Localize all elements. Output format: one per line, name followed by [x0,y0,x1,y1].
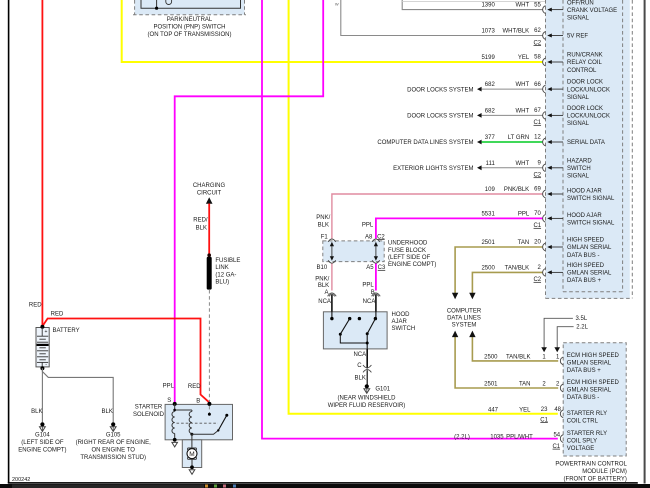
svg-text:DOOR LOCKS SYSTEM: DOOR LOCKS SYSTEM [407,114,473,120]
svg-text:2501: 2501 [481,240,495,246]
svg-text:CHARGING: CHARGING [193,183,226,189]
svg-text:682: 682 [485,82,496,88]
svg-text:WHT: WHT [516,3,530,9]
svg-text:SWITCH SIGNAL: SWITCH SIGNAL [567,220,615,226]
svg-text:(LEFT SIDE OF: (LEFT SIDE OF [21,440,64,446]
svg-text:YEL: YEL [518,55,530,61]
svg-text:(2.2L): (2.2L) [454,434,470,440]
svg-text:GMLAN SERIAL: GMLAN SERIAL [567,271,612,277]
svg-text:W: W [335,2,339,7]
svg-text:STARTER RLY: STARTER RLY [567,431,607,437]
svg-text:(LEFT SIDE OF: (LEFT SIDE OF [388,255,431,261]
svg-text:HIGH SPEED: HIGH SPEED [567,238,605,244]
svg-text:SWITCH SIGNAL: SWITCH SIGNAL [567,196,615,202]
svg-text:2500: 2500 [484,354,498,360]
svg-text:(FRONT OF BATTERY): (FRONT OF BATTERY) [564,476,627,482]
svg-text:BLK: BLK [31,409,42,415]
svg-text:WHT/BLK: WHT/BLK [503,29,530,35]
svg-text:PPL: PPL [362,222,374,228]
svg-text:BLK: BLK [318,222,329,228]
svg-text:S: S [167,398,171,404]
svg-text:PPL: PPL [163,383,175,389]
svg-text:(12 GA-: (12 GA- [215,272,236,278]
svg-text:58: 58 [534,55,541,61]
svg-text:48: 48 [554,407,561,413]
svg-text:A8: A8 [365,234,373,240]
svg-text:RED: RED [188,384,201,390]
svg-text:70: 70 [534,211,541,217]
svg-text:GMLAN SERIAL: GMLAN SERIAL [567,245,612,251]
svg-text:2.2L: 2.2L [576,324,588,330]
svg-text:TAN: TAN [518,240,530,246]
svg-text:HIGH SPEED: HIGH SPEED [567,263,605,269]
svg-text:STARTER RLY: STARTER RLY [567,411,607,417]
svg-text:PARK/NEUTRAL: PARK/NEUTRAL [167,17,213,23]
svg-text:PNK/BLK: PNK/BLK [504,187,529,193]
svg-text:G104: G104 [35,433,50,439]
svg-text:POWERTRAIN CONTROL: POWERTRAIN CONTROL [555,461,627,467]
svg-text:2501: 2501 [484,382,498,388]
svg-text:UNDERHOOD: UNDERHOOD [388,241,428,247]
svg-text:TAN: TAN [519,382,531,388]
svg-text:RED/: RED/ [193,218,208,224]
svg-text:MODULE (PCM): MODULE (PCM) [582,469,627,475]
svg-text:COMPUTER: COMPUTER [447,308,482,314]
svg-text:20: 20 [534,240,541,246]
svg-text:(RIGHT REAR OF ENGINE,: (RIGHT REAR OF ENGINE, [76,440,152,446]
svg-text:55: 55 [534,2,541,8]
svg-text:SYSTEM: SYSTEM [452,322,477,328]
svg-text:12: 12 [534,135,541,141]
svg-text:SIGNAL: SIGNAL [567,121,590,127]
svg-text:62: 62 [534,28,541,34]
svg-text:ECM HIGH SPEED: ECM HIGH SPEED [567,380,620,386]
svg-text:DOOR LOCK: DOOR LOCK [567,80,603,86]
svg-text:HOOD AJAR: HOOD AJAR [567,188,602,194]
svg-text:1073: 1073 [481,29,495,35]
svg-text:HOOD: HOOD [392,312,411,318]
svg-text:GMLAN SERIAL: GMLAN SERIAL [567,360,612,366]
svg-text:LOCK/UNLOCK: LOCK/UNLOCK [567,114,610,120]
svg-text:WHT: WHT [516,108,530,114]
svg-text:COIL SPLY: COIL SPLY [567,439,597,445]
svg-text:109: 109 [485,187,496,193]
svg-text:SWITCH: SWITCH [567,166,591,172]
svg-text:(NEAR WINDSHIELD: (NEAR WINDSHIELD [337,396,396,402]
svg-text:DATA BUS +: DATA BUS + [567,368,601,374]
svg-text:377: 377 [485,135,496,141]
svg-text:G105: G105 [106,433,121,439]
svg-text:COIL CTRL: COIL CTRL [567,419,599,425]
svg-text:YEL: YEL [519,407,531,413]
svg-text:POSITION (PNP) SWITCH: POSITION (PNP) SWITCH [154,24,226,30]
svg-text:ENGINE COMPT): ENGINE COMPT) [388,262,436,268]
svg-text:G101: G101 [375,386,390,392]
svg-text:M: M [189,451,194,458]
svg-text:FUSIBLE: FUSIBLE [215,258,240,264]
svg-text:BLU): BLU) [215,280,229,286]
svg-text:1035: 1035 [490,434,504,440]
svg-text:3.5L: 3.5L [576,316,588,322]
svg-text:RED: RED [29,303,42,309]
svg-text:AJAR: AJAR [392,319,408,325]
svg-text:DATA BUS -: DATA BUS - [567,395,599,401]
svg-text:ENGINE COMPT): ENGINE COMPT) [18,448,66,454]
svg-text:SIGNAL: SIGNAL [567,95,590,101]
svg-text:RUN/CRANK: RUN/CRANK [567,53,603,59]
svg-text:682: 682 [485,108,496,114]
svg-text:DATA BUS +: DATA BUS + [567,278,601,284]
svg-text:BLK: BLK [355,375,366,381]
svg-text:BATTERY: BATTERY [53,328,80,334]
svg-text:LOCK/UNLOCK: LOCK/UNLOCK [567,87,610,93]
svg-text:PPL: PPL [362,283,374,289]
svg-text:BLK: BLK [318,283,329,289]
svg-text:ECM HIGH SPEED: ECM HIGH SPEED [567,353,620,359]
svg-text:5199: 5199 [481,55,495,61]
svg-text:RELAY COIL: RELAY COIL [567,60,602,66]
svg-text:STARTER: STARTER [135,404,163,410]
svg-text:NCA: NCA [363,299,376,305]
svg-text:CIRCUIT: CIRCUIT [197,190,222,196]
svg-text:TAN/BLK: TAN/BLK [505,265,530,271]
svg-text:DATA BUS -: DATA BUS - [567,253,599,259]
svg-text:EXTERIOR LIGHTS SYSTEM: EXTERIOR LIGHTS SYSTEM [393,166,473,172]
svg-text:RED: RED [51,311,64,317]
svg-text:SIGNAL: SIGNAL [567,16,590,22]
svg-text:2500: 2500 [481,265,495,271]
svg-text:COMPUTER DATA LINES SYSTEM: COMPUTER DATA LINES SYSTEM [377,140,473,146]
svg-text:447: 447 [488,407,499,413]
svg-text:HAZARD: HAZARD [567,158,592,164]
svg-text:F1: F1 [321,234,329,240]
svg-text:SWITCH: SWITCH [392,326,416,332]
svg-text:SOLENOID: SOLENOID [133,412,165,418]
svg-text:TAN/BLK: TAN/BLK [506,354,531,360]
svg-text:PNK/: PNK/ [316,215,330,221]
svg-text:69: 69 [534,187,541,193]
svg-text:DATA LINES: DATA LINES [447,315,481,321]
svg-text:DOOR LOCK: DOOR LOCK [567,106,603,112]
svg-text:NCA: NCA [318,299,331,305]
svg-text:C: C [357,363,362,369]
svg-text:GMLAN SERIAL: GMLAN SERIAL [567,388,612,394]
svg-text:5V REF: 5V REF [567,34,588,40]
svg-text:OFF/RUN: OFF/RUN [567,0,594,6]
svg-text:(ON TOP OF TRANSMISSION): (ON TOP OF TRANSMISSION) [148,32,232,38]
svg-text:LT GRN: LT GRN [508,135,529,141]
svg-text:5531: 5531 [481,211,495,217]
svg-text:SERIAL DATA: SERIAL DATA [567,140,605,146]
svg-text:WIPER FLUID RESERVOIR): WIPER FLUID RESERVOIR) [328,403,406,409]
svg-text:+: + [45,329,48,335]
svg-text:111: 111 [486,161,496,167]
svg-text:BLK: BLK [102,409,113,415]
svg-text:BLK: BLK [196,225,207,231]
svg-text:ON ENGINE TO: ON ENGINE TO [91,448,135,454]
svg-text:CRANK VOLTAGE: CRANK VOLTAGE [567,8,617,14]
svg-text:66: 66 [534,82,541,88]
svg-text:WHT: WHT [516,161,530,167]
svg-text:PPL/WHT: PPL/WHT [506,434,533,440]
svg-text:B: B [196,399,200,405]
svg-text:200242: 200242 [12,477,30,483]
svg-text:54: 54 [553,433,560,439]
svg-text:NCA: NCA [353,352,366,358]
svg-text:B10: B10 [317,265,328,271]
svg-text:CONTROL: CONTROL [567,68,597,74]
svg-text:DOOR LOCKS SYSTEM: DOOR LOCKS SYSTEM [407,87,473,93]
svg-text:PNK/: PNK/ [315,276,329,282]
svg-text:TRANSMISSION STUD): TRANSMISSION STUD) [80,455,146,461]
svg-text:67: 67 [534,108,541,114]
svg-text:VOLTAGE: VOLTAGE [567,446,594,452]
svg-text:23: 23 [541,407,548,413]
svg-text:LINK: LINK [215,265,228,271]
svg-text:SIGNAL: SIGNAL [567,174,590,180]
svg-text:PPL: PPL [518,211,530,217]
svg-text:A5: A5 [366,265,374,271]
svg-text:1390: 1390 [481,3,495,9]
svg-text:HOOD AJAR: HOOD AJAR [567,213,602,219]
svg-text:WHT: WHT [516,82,530,88]
svg-text:FUSE BLOCK: FUSE BLOCK [388,248,426,254]
